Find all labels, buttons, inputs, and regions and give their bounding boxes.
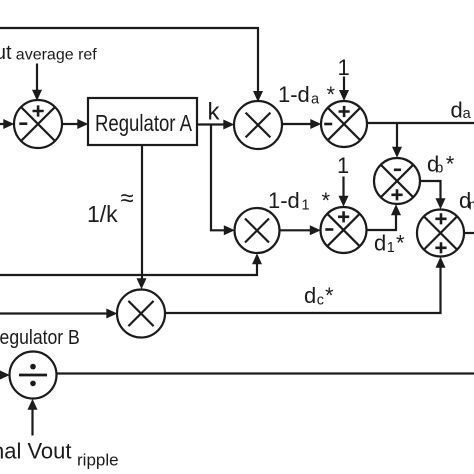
multiplier M2 [235,208,280,253]
svg-text:a: a [463,106,472,122]
node Vout average ref label [0,42,97,64]
wire lower feedback at y275 up into M2 [0,253,262,275]
wire left input into summer S1 [0,119,14,129]
wire 1 into summer SA [339,77,349,102]
svg-text:k: k [208,99,221,126]
svg-text:1/k: 1/k [87,201,118,227]
summer SB [321,207,367,253]
wire 1 into summer SB [339,177,349,207]
svg-text:b: b [435,161,443,177]
svg-text:d: d [451,98,463,123]
wire branch da down into summer S3 [392,123,402,158]
svg-text:1-d: 1-d [268,188,300,213]
wire S4 output to right edge [464,232,474,234]
label d1* [374,231,405,257]
wire Vout average ref into summer S1 [32,64,42,101]
svg-text:*: * [325,283,334,308]
label db* [427,152,455,177]
wire DIV output to right edge [57,372,474,374]
wire S1 to Regulator A [62,119,88,129]
summer S4 [417,210,464,257]
label da (cropped right) [451,98,472,123]
label d right edge (cropped) [459,188,474,214]
summer S1 [14,100,62,148]
svg-text:d: d [304,283,316,308]
divider DIV [10,352,57,399]
summer SA [321,101,367,147]
svg-text:*: * [322,188,331,213]
svg-text:1: 1 [337,153,349,178]
svg-text:1: 1 [387,240,395,256]
svg-text:average ref: average ref [16,47,97,64]
summer S3 [374,158,420,204]
svg-text:Regulator A: Regulator A [95,110,193,136]
multiplier M1 [234,101,282,149]
wire k branch down to multiplier M2 [211,125,235,236]
svg-text:Regulator B: Regulator B [0,326,80,349]
wire M2 to summer SB [280,225,321,235]
label 1-da* [278,82,336,108]
label dc* [304,283,334,309]
svg-text:1-d: 1-d [278,82,310,107]
wire Nominal Vout ripple up into DIV [28,399,38,436]
svg-text:c: c [317,293,324,309]
wire Regulator A to multiplier M1, node k [197,99,234,130]
svg-text:1: 1 [338,55,350,80]
svg-text:d: d [374,231,386,256]
block Regulator A [88,98,197,145]
svg-text:ripple: ripple [77,451,119,470]
wire S3 output to summer S4 [420,181,446,209]
node Nominal Vout ripple label (cropped left) [0,439,119,470]
svg-text:Vout: Vout [0,42,12,64]
wire SB output d1* up into S3 [367,204,402,230]
label 1/k approx [87,185,134,227]
wire Regulator A bottom into multiplier MB [137,145,147,289]
svg-text:1: 1 [302,198,310,214]
svg-text:m: m [469,198,474,214]
multiplier MB [117,290,165,338]
wire top feedforward input [0,28,263,102]
svg-text:≈: ≈ [121,185,134,212]
wire M1 to summer SA [282,119,321,129]
label 1-d1* [268,188,331,214]
svg-text:nal Vout: nal Vout [0,439,72,464]
wire MB output dc* up into S4 [165,257,446,313]
svg-text:*: * [446,152,455,177]
wire left input into multiplier MB [0,309,117,319]
wire left input into divider DIV [0,370,10,380]
svg-text:a: a [311,92,320,108]
wire SA output da* to right edge [367,122,474,124]
svg-text:*: * [396,231,405,256]
